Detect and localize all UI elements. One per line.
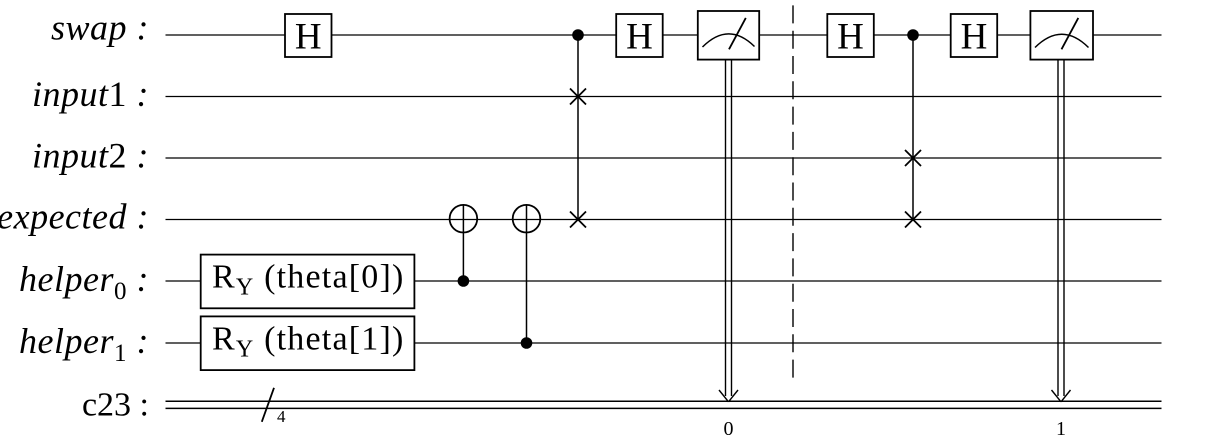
svg-text:helper1 :: helper1 : — [19, 321, 149, 367]
svg-text:input1 :: input1 : — [32, 74, 149, 114]
svg-text:0: 0 — [724, 418, 734, 440]
svg-text:swap :: swap : — [51, 7, 149, 47]
svg-text:H: H — [961, 16, 988, 57]
svg-text:H: H — [295, 16, 322, 57]
svg-text:H: H — [626, 16, 653, 57]
svg-text:4: 4 — [277, 407, 286, 426]
svg-text:H: H — [837, 16, 864, 57]
svg-text:expected :: expected : — [0, 196, 149, 236]
svg-text:c23 :: c23 : — [82, 387, 149, 424]
svg-text:helper0 :: helper0 : — [19, 259, 149, 305]
svg-text:input2 :: input2 : — [32, 136, 149, 176]
svg-text:1: 1 — [1056, 418, 1066, 440]
